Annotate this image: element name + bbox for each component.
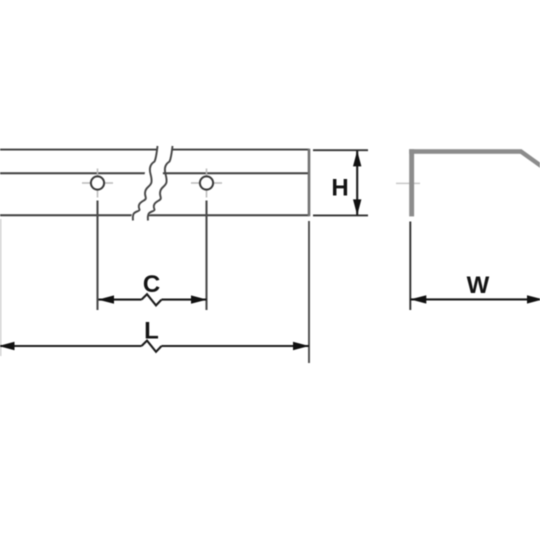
dimension H arrow up: [353, 151, 361, 167]
bar right end line: [308, 149, 311, 216]
dimension L right extension line: [308, 221, 310, 363]
svg-text:H: H: [331, 175, 348, 202]
dimension L line: [0, 341, 309, 352]
dimension H arrow down: [353, 199, 361, 215]
profile top plate: [409, 149, 522, 154]
dimension W line: [410, 298, 540, 300]
hole 1 center marks: [82, 169, 113, 198]
bar bottom edge line: [0, 214, 309, 216]
dimension H bottom extension line: [313, 214, 368, 216]
dimension C line: [99, 294, 207, 305]
break gap mask: [130, 144, 173, 222]
svg-text:W: W: [467, 272, 490, 299]
hole 1: [91, 176, 104, 189]
dimension H line: [356, 151, 358, 216]
break squiggle left: [133, 146, 158, 221]
dimension W arrow left: [410, 295, 426, 303]
hole 1 extension line: [96, 201, 98, 311]
hole 2: [200, 176, 213, 189]
dimension L left extension line (faint, at image edge): [0, 219, 2, 356]
profile vertical plate: [409, 149, 414, 216]
dimension L arrow left: [0, 342, 15, 350]
dimension W arrow right: [527, 295, 540, 303]
svg-text:C: C: [143, 271, 160, 298]
dimension H top extension line: [313, 149, 368, 151]
dimension C arrow right: [191, 295, 207, 303]
profile centre tick: [396, 182, 420, 184]
bar face line: [0, 172, 309, 174]
dimension C arrow left: [98, 295, 114, 303]
hole 2 extension line: [205, 201, 207, 311]
hole 2 center marks: [191, 169, 222, 198]
profile bevel edge: [521, 151, 540, 169]
break squiggle right: [148, 146, 173, 221]
dimension L arrow right: [293, 342, 309, 350]
bar top edge line: [0, 149, 309, 151]
dimension W extension line: [409, 222, 411, 311]
svg-text:L: L: [144, 318, 159, 345]
